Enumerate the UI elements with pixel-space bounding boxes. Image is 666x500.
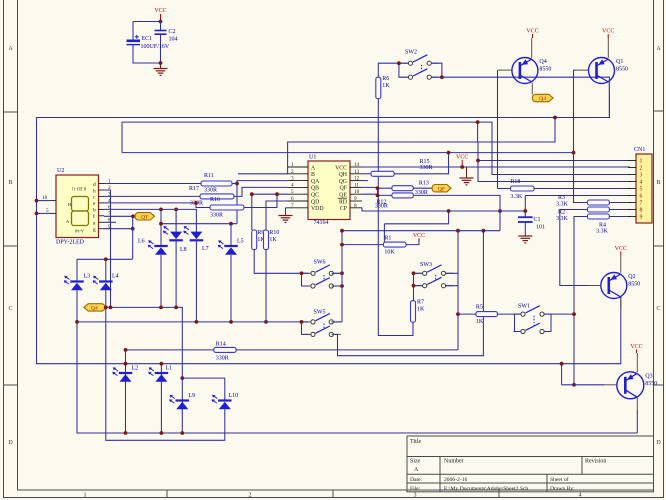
- wire R1 right: [406, 239, 419, 245]
- junction: [340, 284, 344, 288]
- wire sw3 vert: [413, 273, 415, 300]
- svg-text:Sheet of: Sheet of: [550, 476, 569, 483]
- wire sw2 stub b: [402, 76, 409, 78]
- wire bus2: [122, 122, 630, 174]
- wire sw2 left link: [399, 63, 402, 77]
- svg-text:Revision: Revision: [585, 459, 606, 465]
- svg-text:B: B: [8, 180, 12, 186]
- svg-text:8550: 8550: [628, 282, 640, 288]
- wire sw3 left: [414, 272, 423, 274]
- wire R4 right: [609, 209, 630, 211]
- wire C1 riser: [524, 196, 526, 212]
- resistor R15 330R: [371, 159, 433, 177]
- svg-text:L4: L4: [112, 274, 119, 280]
- power VCC Q1: [602, 29, 614, 39]
- svg-text:101: 101: [536, 225, 545, 231]
- wire L4 col: [106, 290, 225, 440]
- svg-text:g: g: [93, 227, 96, 233]
- junction: [124, 362, 128, 366]
- pin Q1 emitter: [607, 38, 609, 58]
- junction: [560, 362, 564, 366]
- resistor R14 330R: [214, 341, 236, 361]
- wire port row307: [105, 307, 183, 378]
- wire sw1 left: [515, 313, 521, 315]
- junction: [109, 306, 113, 310]
- transistor Q1 8550: [589, 58, 629, 84]
- junction: [340, 243, 344, 247]
- ground rail: [460, 167, 474, 185]
- svg-text:R10: R10: [269, 230, 279, 236]
- svg-text:11: 11: [354, 182, 359, 188]
- svg-text:U1: U1: [309, 155, 316, 161]
- wire pin5 row: [252, 193, 288, 195]
- wire u2 pin1 to R11: [104, 183, 201, 185]
- svg-text:R7: R7: [417, 300, 424, 306]
- wire pin3 row: [237, 181, 288, 224]
- resistor R10 1K: [264, 230, 280, 250]
- svg-text:5: 5: [291, 189, 294, 195]
- wire r14 row right: [236, 349, 458, 351]
- svg-text:6: 6: [291, 196, 294, 202]
- svg-text:VCC: VCC: [630, 344, 642, 350]
- svg-text:SW2: SW2: [405, 50, 417, 56]
- svg-text:8550: 8550: [539, 67, 551, 73]
- power VCC R1: [413, 233, 425, 239]
- wire sw3 right: [446, 273, 458, 285]
- svg-text:R5: R5: [476, 305, 483, 311]
- svg-text:R1: R1: [384, 235, 391, 241]
- svg-text:14: 14: [354, 162, 360, 168]
- resistor R16 330R: [210, 197, 244, 219]
- wire bus321: [77, 321, 302, 323]
- svg-text:D: D: [8, 440, 13, 446]
- svg-text:C1: C1: [534, 217, 541, 223]
- svg-text:CN1: CN1: [634, 147, 645, 153]
- svg-text:330R: 330R: [216, 355, 229, 361]
- capacitor C1 101: [518, 217, 545, 231]
- transistor Q4 8550: [512, 58, 552, 84]
- svg-text:SW5: SW5: [314, 310, 326, 316]
- svg-text:B: B: [656, 180, 660, 186]
- wire pin2 row: [238, 173, 288, 175]
- svg-text:Q4: Q4: [91, 306, 98, 312]
- svg-text:U2: U2: [57, 168, 64, 174]
- svg-text:1: 1: [291, 162, 294, 168]
- wire sw5 right: [332, 321, 342, 323]
- wire R12 right: [413, 195, 500, 211]
- junction: [376, 194, 380, 198]
- title block: [407, 436, 654, 492]
- svg-text:R3: R3: [558, 195, 565, 201]
- svg-text:4: 4: [640, 180, 643, 186]
- resistor R1 10K: [383, 235, 406, 255]
- wire u2 pin5: [37, 212, 51, 214]
- junction: [300, 271, 304, 275]
- wire sw1 left2: [515, 314, 521, 331]
- svg-text:9: 9: [640, 215, 643, 221]
- connector CN1: [628, 147, 652, 223]
- svg-text:3.3K: 3.3K: [556, 216, 569, 222]
- svg-text:File:: File:: [410, 486, 421, 492]
- junction: [340, 271, 344, 275]
- wire Q3 base: [562, 384, 605, 386]
- svg-text:1: 1: [640, 159, 643, 165]
- wire L1 col: [160, 364, 162, 433]
- junction: [160, 362, 164, 366]
- junction: [476, 120, 480, 124]
- junction: [412, 271, 416, 275]
- wire R4 left: [560, 210, 588, 287]
- resistor R7 1K: [411, 300, 426, 323]
- svg-text:RD: RD: [339, 199, 347, 205]
- wire R9 down: [254, 250, 301, 274]
- junction: [180, 431, 184, 435]
- wire L7 down: [195, 242, 197, 322]
- junction: [572, 383, 576, 387]
- wire R2 right: [609, 216, 630, 218]
- wire cp row: [362, 208, 525, 211]
- port Q4: [532, 94, 553, 102]
- pin Q3 emitter: [636, 353, 638, 372]
- junction: [35, 199, 39, 203]
- wire staircase: [384, 211, 448, 224]
- wire R13 to port: [413, 187, 432, 189]
- svg-text:3: 3: [640, 173, 643, 179]
- wire Q1 base2: [574, 153, 588, 203]
- svg-text:9: 9: [354, 196, 357, 202]
- svg-text:6: 6: [640, 194, 643, 200]
- svg-text:2: 2: [291, 169, 294, 175]
- resistor R18 3.3K: [510, 179, 534, 200]
- svg-text:4: 4: [291, 182, 294, 188]
- port QF (U2): [135, 213, 155, 221]
- svg-text:10: 10: [354, 189, 360, 195]
- svg-text:1K: 1K: [382, 83, 390, 89]
- svg-text:VCC: VCC: [615, 246, 627, 252]
- wire L4 feed: [105, 259, 107, 280]
- svg-text:VDD: VDD: [311, 206, 324, 212]
- svg-text:A: A: [8, 46, 13, 52]
- wire R16 riser: [244, 194, 277, 207]
- switch SW3: [415, 262, 453, 288]
- wire u2 pin4: [104, 203, 210, 208]
- junction: [180, 376, 184, 380]
- op-amp U2 DPY-2LED display: [42, 168, 111, 246]
- svg-text:74164: 74164: [314, 220, 329, 226]
- svg-text:330R: 330R: [210, 213, 223, 219]
- wire u2 pin3 to R17: [104, 195, 200, 197]
- svg-text:R15: R15: [420, 159, 430, 165]
- resistor R5 1K: [476, 305, 498, 325]
- junction: [160, 431, 164, 435]
- wire sw6 right: [332, 272, 342, 274]
- svg-text:2: 2: [249, 492, 252, 498]
- transistor Q2 8550: [601, 273, 641, 299]
- power VCC Q2: [615, 246, 627, 255]
- junction: [195, 320, 199, 324]
- junction: [275, 192, 279, 196]
- svg-text:2006-2-16: 2006-2-16: [444, 477, 468, 483]
- wire L3 feed: [76, 259, 78, 280]
- junction: [447, 209, 451, 213]
- svg-text:B: B: [68, 202, 71, 207]
- wire R2 left: [574, 217, 587, 385]
- svg-text:330R: 330R: [375, 204, 388, 210]
- svg-text:h: h: [93, 188, 96, 194]
- svg-text:10K: 10K: [384, 249, 395, 255]
- pin Q2 collector: [620, 298, 622, 310]
- wire r14 row left: [126, 349, 214, 351]
- svg-text:L8: L8: [180, 247, 187, 253]
- svg-text:L2: L2: [132, 366, 139, 372]
- junction: [440, 75, 444, 79]
- wire sw6 right2: [332, 285, 342, 287]
- wire sw2 left: [378, 63, 402, 77]
- svg-text:Q3: Q3: [645, 373, 652, 379]
- wire pin14 vcc row: [362, 166, 630, 168]
- svg-text:R6: R6: [382, 76, 389, 82]
- junction: [104, 257, 108, 261]
- svg-text:R2: R2: [558, 210, 565, 216]
- wire v478 up: [477, 122, 479, 142]
- wire R6 down: [378, 99, 413, 336]
- junction: [124, 348, 128, 352]
- wire sw1 right: [544, 314, 551, 331]
- wire u2 pin7: [104, 215, 133, 217]
- wire R18 left: [498, 188, 511, 190]
- wire staircase drop: [383, 224, 385, 242]
- svg-text:R17: R17: [189, 186, 199, 192]
- svg-text:b: b: [93, 208, 96, 214]
- wire row230: [342, 230, 500, 232]
- junction: [553, 116, 557, 120]
- resistor R9 1K: [252, 230, 266, 250]
- svg-text:QF: QF: [438, 186, 445, 192]
- wire: [133, 21, 161, 23]
- svg-text:7: 7: [291, 203, 294, 209]
- wire led row223: [161, 223, 237, 225]
- junction: [159, 61, 163, 65]
- switch SW2: [401, 50, 439, 80]
- svg-text:Q4: Q4: [539, 96, 546, 102]
- wire L9 L10 row: [182, 378, 225, 399]
- switch SW1: [514, 304, 552, 334]
- svg-text:C: C: [8, 306, 12, 312]
- junction: [447, 151, 451, 155]
- diode LED L5: [218, 239, 244, 255]
- wire sw5 left2: [302, 322, 309, 335]
- wire led row: [160, 209, 162, 245]
- svg-text:5: 5: [640, 187, 643, 193]
- junction: [131, 214, 135, 218]
- svg-text:3.3K: 3.3K: [510, 194, 523, 200]
- svg-text:VCC: VCC: [335, 165, 347, 171]
- junction: [482, 229, 486, 233]
- wire C1 top: [524, 211, 526, 217]
- svg-text:Q1: Q1: [616, 59, 623, 65]
- wire Q2 base: [560, 285, 589, 287]
- wire: [160, 22, 162, 31]
- svg-text:B: B: [311, 172, 315, 178]
- diode LED L9: [169, 393, 195, 409]
- pin Q3 collector: [636, 398, 638, 410]
- junction: [456, 312, 460, 316]
- svg-text:L5: L5: [237, 239, 244, 245]
- wire u2 pin10: [37, 200, 51, 202]
- svg-text:2: 2: [640, 166, 643, 172]
- wire R15 left: [362, 173, 371, 175]
- junction: [159, 208, 163, 212]
- wire sw2 stub: [402, 62, 409, 64]
- wire: [133, 45, 161, 63]
- junction: [572, 151, 576, 155]
- wire pin6 riser: [266, 201, 288, 230]
- svg-text:VCC: VCC: [602, 29, 614, 35]
- wire L3L4 row: [77, 258, 132, 260]
- svg-text:[LED-1]: [LED-1]: [71, 187, 86, 192]
- junction: [194, 201, 198, 205]
- svg-text:4: 4: [579, 492, 582, 498]
- svg-text:8550: 8550: [645, 381, 657, 387]
- svg-text:1: 1: [84, 492, 87, 498]
- junction: [523, 209, 527, 213]
- wire R5 right: [497, 313, 514, 315]
- junction: [264, 320, 268, 324]
- svg-text:QA: QA: [311, 179, 320, 185]
- svg-text:8550: 8550: [616, 67, 628, 73]
- svg-text:A: A: [656, 46, 661, 52]
- wire pin4 riser: [234, 187, 288, 196]
- wire R10 down: [265, 250, 267, 322]
- svg-text:3: 3: [291, 176, 294, 182]
- svg-text:QE: QE: [339, 193, 347, 199]
- junction: [250, 192, 254, 196]
- wire pin12 stub: [362, 180, 368, 182]
- junction: [174, 306, 178, 310]
- resistor R17 330R: [189, 186, 234, 207]
- svg-text:Q2: Q2: [628, 274, 635, 280]
- svg-text:QH: QH: [339, 172, 348, 178]
- capacitor EC1 100UF/16V: [127, 35, 170, 50]
- wire Q1 base: [574, 70, 577, 153]
- svg-text:R16: R16: [210, 197, 220, 203]
- wire C1 bot: [524, 223, 526, 236]
- svg-text:QG: QG: [339, 179, 347, 185]
- svg-text:D: D: [656, 440, 661, 446]
- svg-text:330R: 330R: [420, 165, 433, 171]
- svg-text:C2: C2: [169, 29, 176, 35]
- wire CN1 pin1 row: [478, 160, 630, 162]
- svg-text:3.3K: 3.3K: [596, 229, 609, 235]
- switch SW5: [304, 310, 341, 337]
- wire u1 vdd: [286, 207, 289, 209]
- wire L3 col: [77, 290, 637, 433]
- wire sw3 left2: [414, 285, 423, 287]
- pin Q4 emitter: [531, 38, 533, 58]
- svg-text:EC1: EC1: [142, 36, 153, 42]
- diode LED L4: [93, 274, 119, 291]
- wire R3 right: [609, 202, 630, 204]
- wire main bus: [37, 81, 621, 364]
- junction: [159, 20, 163, 24]
- ground: [154, 63, 168, 75]
- svg-text:1K: 1K: [269, 237, 277, 243]
- wire u2 pin6 row: [104, 209, 196, 232]
- resistor R12 330R: [375, 193, 413, 210]
- diode LED L7: [183, 226, 208, 252]
- junction: [104, 306, 108, 310]
- svg-text:7: 7: [640, 201, 643, 207]
- junction: [412, 284, 416, 288]
- resistor R6 1K: [376, 76, 391, 99]
- wire sw1 right out: [551, 313, 574, 315]
- wire v342: [341, 231, 343, 322]
- svg-text:R13: R13: [419, 181, 429, 187]
- wire cp drop: [499, 211, 501, 231]
- switch SW6: [304, 260, 341, 289]
- junction: [376, 186, 380, 190]
- wire R5 left: [458, 313, 476, 315]
- diode LED L1: [148, 366, 172, 382]
- capacitor C2 104: [155, 29, 178, 43]
- svg-text:Number: Number: [444, 459, 464, 465]
- diode LED L10: [212, 393, 239, 409]
- wire sw5 right2: [332, 231, 484, 356]
- svg-text:SW3: SW3: [420, 262, 432, 268]
- wire R1 left: [342, 244, 383, 246]
- resistor R4 3.3K: [587, 207, 609, 212]
- junction: [300, 320, 304, 324]
- svg-text:100UF/16V: 100UF/16V: [141, 44, 170, 50]
- svg-text:L3: L3: [84, 274, 91, 280]
- wire row142: [288, 141, 478, 143]
- svg-text:QC: QC: [311, 193, 319, 199]
- wire pin11: [362, 186, 392, 189]
- wire L9 col: [181, 378, 183, 433]
- junction: [229, 320, 233, 324]
- svg-text:A: A: [414, 467, 419, 473]
- junction: [131, 227, 135, 231]
- svg-text:QB: QB: [311, 186, 319, 192]
- wire R15 right: [394, 153, 448, 174]
- wire sw6 left: [302, 273, 309, 286]
- svg-text:8: 8: [354, 203, 357, 209]
- ground U1 VDD: [279, 208, 293, 223]
- diode LED L2: [112, 366, 138, 382]
- svg-text:d: d: [93, 182, 96, 188]
- wire u2 pin2: [104, 190, 111, 307]
- wire Q3 collector: [636, 410, 638, 433]
- power VCC Q4: [526, 29, 538, 39]
- wire sw5 left: [302, 321, 309, 323]
- wire R11 right: [232, 183, 237, 185]
- wire Q4 base: [497, 70, 499, 188]
- svg-text:f: f: [93, 213, 95, 220]
- svg-text:3: 3: [414, 492, 417, 498]
- svg-text:C: C: [656, 306, 660, 312]
- wire: [132, 22, 134, 40]
- junction: [340, 229, 344, 233]
- wire qf drop: [132, 216, 134, 259]
- junction: [229, 222, 233, 226]
- wire sw2 stubs: [431, 63, 442, 77]
- junction: [174, 208, 178, 212]
- svg-text:SW1: SW1: [518, 304, 530, 310]
- svg-text:L1: L1: [166, 366, 173, 372]
- junction: [159, 306, 163, 310]
- wire row195: [525, 195, 630, 197]
- junction: [460, 165, 464, 169]
